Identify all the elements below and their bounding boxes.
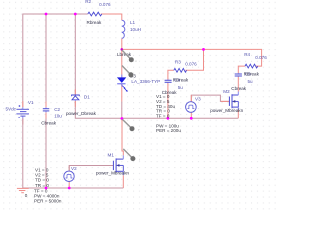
- svg-text:C2: C2: [54, 107, 60, 112]
- svg-text:TD = 0: TD = 0: [35, 178, 49, 183]
- junction dot top rail C2: [45, 13, 48, 16]
- junction dot L1 bottom: [121, 48, 124, 51]
- svg-text:power_Mbreakn: power_Mbreakn: [96, 170, 129, 175]
- probe 4 (M1 drain): [123, 149, 140, 162]
- mosfet M2: [210, 89, 243, 113]
- wire V2 bottom pin: [68, 182, 70, 189]
- pulse source V2: [64, 166, 77, 182]
- svg-text:TF = 0: TF = 0: [156, 114, 170, 119]
- wire V3 gate pin: [221, 100, 229, 102]
- wire R3 left to C3: [168, 70, 174, 79]
- wire M2 source to mid rail: [237, 110, 239, 118]
- wire M1 gate pin: [108, 165, 114, 167]
- wire D1 column bottom to mid rail: [75, 101, 122, 118]
- wire V3 top pin: [190, 95, 192, 102]
- wire R3 right to top rail: [185, 49, 203, 70]
- wire LED cathode to junction: [121, 102, 123, 119]
- wire V1 bottom pin: [22, 119, 24, 125]
- svg-text:V2 = 5: V2 = 5: [156, 99, 170, 104]
- svg-text:R2: R2: [85, 0, 91, 4]
- V2 parameter text: [34, 167, 62, 203]
- svg-text:PER = 5000n: PER = 5000n: [34, 199, 62, 204]
- resistor R2: [85, 0, 111, 25]
- svg-text:RBreak: RBreak: [244, 72, 260, 77]
- diode D1: [66, 94, 97, 116]
- battery V1: [6, 100, 34, 119]
- svg-text:0: 0: [25, 193, 28, 198]
- svg-text:10u: 10u: [54, 114, 62, 119]
- svg-text:PW = 100u: PW = 100u: [156, 123, 179, 128]
- wire mid rail: [122, 117, 238, 119]
- svg-text:V2: V2: [71, 166, 77, 171]
- svg-text:V2 = 5: V2 = 5: [35, 173, 49, 178]
- svg-text:0.076: 0.076: [255, 55, 267, 60]
- svg-text:10uH: 10uH: [130, 27, 141, 32]
- svg-text:V1: V1: [28, 100, 34, 105]
- svg-text:power_Mbreakn: power_Mbreakn: [210, 108, 243, 113]
- mosfet M1: [96, 152, 129, 175]
- svg-text:PW = 4000n: PW = 4000n: [34, 194, 60, 199]
- svg-text:V1 = 0: V1 = 0: [156, 94, 170, 99]
- wire V3 bottom pin: [190, 112, 192, 118]
- wire D1 bottom pin: [74, 101, 76, 107]
- junction dot mid rail C3: [167, 117, 170, 120]
- wire C5 bottom to M2 drain pin: [237, 77, 239, 92]
- svg-text:L1: L1: [130, 20, 136, 25]
- wire top rail right of R2: [101, 14, 122, 20]
- wire C3 bottom to mid rail: [167, 83, 169, 118]
- probe 2 (above LED): [122, 66, 133, 78]
- svg-text:PER = 200u: PER = 200u: [156, 128, 181, 133]
- wire V2 top pin: [68, 166, 70, 172]
- svg-text:M2: M2: [223, 89, 230, 94]
- resistor R4: [244, 52, 268, 77]
- svg-text:R3: R3: [175, 59, 181, 64]
- svg-text:TF = 0: TF = 0: [34, 188, 48, 193]
- junction dot bottom rail C2: [45, 187, 48, 190]
- LED D3: [117, 73, 160, 91]
- junction dot mid rail V3: [190, 117, 193, 120]
- wire C2 bottom pin: [45, 112, 47, 118]
- svg-text:0.076: 0.076: [185, 61, 197, 66]
- svg-text:0.076: 0.076: [99, 2, 111, 7]
- wire LED cathode: [121, 84, 123, 102]
- svg-text:power_Dbreak: power_Dbreak: [66, 111, 97, 116]
- wire C2 column bottom: [45, 112, 47, 188]
- svg-text:R4: R4: [244, 52, 250, 57]
- probe 1 (below L1): [122, 50, 137, 63]
- svg-text:Rbreak: Rbreak: [87, 20, 103, 25]
- svg-text:5u: 5u: [178, 85, 184, 90]
- svg-text:D1: D1: [84, 94, 90, 99]
- svg-text:5Vdc: 5Vdc: [6, 106, 17, 111]
- svg-text:Cbreak: Cbreak: [231, 86, 247, 91]
- wire LED anode: [121, 49, 123, 77]
- svg-text:M1: M1: [108, 152, 115, 157]
- svg-text:V3: V3: [195, 97, 201, 102]
- inductor L1: [117, 20, 141, 57]
- capacitor C2: [41, 107, 62, 126]
- junction dot R3 top: [202, 48, 205, 51]
- wire V2 top pin to M1 gate: [69, 166, 113, 172]
- capacitor C3: [162, 80, 184, 96]
- junction dot top rail D1: [74, 13, 77, 16]
- V3 parameter text: [156, 94, 181, 133]
- svg-text:TR = 0: TR = 0: [35, 183, 49, 188]
- wire top-right rail: [122, 49, 262, 66]
- svg-text:V1 = 0: V1 = 0: [35, 167, 49, 172]
- pulse source V3: [186, 97, 201, 113]
- svg-text:5u: 5u: [248, 79, 254, 84]
- wire bottom rail: [23, 187, 124, 189]
- wire R4 left to C5: [238, 66, 245, 73]
- wire V1 top pin: [22, 101, 24, 107]
- capacitor C5: [231, 73, 253, 91]
- wire C2 top pin: [45, 102, 47, 108]
- svg-text:RBreak: RBreak: [173, 77, 189, 82]
- resistor R3: [173, 59, 197, 82]
- wire C2 column top: [45, 14, 47, 107]
- probe 3 (mid rail junction): [122, 119, 140, 131]
- svg-text:TR = 0: TR = 0: [156, 109, 170, 114]
- wire D1 top pin: [74, 89, 76, 95]
- wire V3 top to M2 gate: [191, 95, 229, 102]
- junction dot mid rail center: [121, 117, 124, 120]
- wire V1 bottom: [22, 119, 24, 189]
- wire L1 bottom pin: [121, 38, 123, 49]
- svg-text:TD = 40u: TD = 40u: [156, 104, 175, 109]
- svg-text:Cbreak: Cbreak: [41, 121, 57, 126]
- wire M1 source column: [122, 175, 124, 188]
- svg-text:LA_3366-TYP: LA_3366-TYP: [131, 79, 160, 84]
- wire M1 drain column: [122, 118, 123, 155]
- wire D1 column top: [74, 14, 76, 95]
- wire top rail left: [23, 14, 88, 107]
- ground 0: [17, 188, 29, 198]
- junction dot bottom rail V2: [68, 187, 71, 190]
